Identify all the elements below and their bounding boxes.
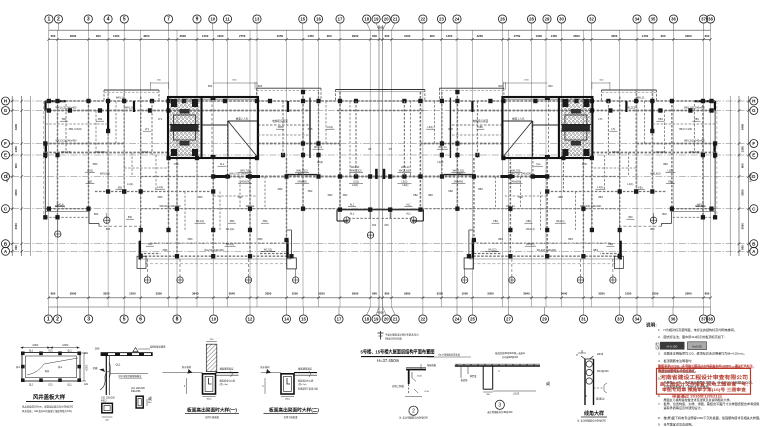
svg-text:240x400: 240x400 [95, 150, 106, 154]
svg-text:H为相对标高装饰面，未标注的结构标高均同电梯间。: H为相对标高装饰面，未标注的结构标高均同电梯间。 [664, 327, 737, 332]
svg-text:17: 17 [337, 317, 342, 322]
svg-text:WKL7(5): WKL7(5) [510, 170, 520, 173]
svg-text:XB4: XB4 [230, 220, 235, 223]
svg-text:<2300: <2300 [62, 344, 69, 347]
svg-text:屋面上人孔: 屋面上人孔 [512, 117, 525, 121]
svg-text:H±0.05: H±0.05 [692, 344, 702, 348]
svg-text:11: 11 [225, 17, 230, 22]
svg-text:LT1: LT1 [145, 128, 150, 131]
svg-text:2900: 2900 [70, 292, 77, 296]
svg-text:3: 3 [498, 403, 501, 409]
svg-text:G21: G21 [48, 351, 53, 353]
svg-text:1550: 1550 [292, 292, 299, 296]
svg-text:AL1: AL1 [350, 212, 355, 216]
svg-text:9: 9 [196, 17, 199, 23]
svg-text:37: 37 [701, 317, 706, 322]
svg-text:3100: 3100 [404, 34, 411, 38]
svg-text:240x450: 240x450 [454, 181, 464, 184]
svg-text:800: 800 [705, 292, 710, 296]
svg-text:XB1: XB1 [88, 181, 93, 184]
svg-text:WKL11: WKL11 [116, 96, 125, 100]
svg-text:未尽事宜详见总说明。: 未尽事宜详见总说明。 [664, 421, 695, 426]
svg-text:1300: 1300 [536, 34, 543, 38]
svg-text:WL1(1): WL1(1) [226, 227, 235, 231]
svg-text:XB3: XB3 [198, 195, 203, 199]
svg-text:4Φ12/Φ6: 4Φ12/Φ6 [131, 390, 141, 393]
svg-text:20: 20 [384, 17, 389, 22]
svg-text:L1(1): L1(1) [597, 186, 603, 189]
svg-text:34: 34 [635, 317, 640, 322]
svg-text:吊模: 吊模 [93, 366, 98, 370]
svg-text:XB2: XB2 [663, 162, 668, 166]
svg-text:2900: 2900 [70, 34, 77, 38]
svg-text:XB5: XB5 [278, 126, 283, 129]
svg-text:15: 15 [300, 17, 305, 22]
svg-text:800: 800 [662, 212, 667, 216]
svg-text:150: 150 [384, 223, 389, 227]
svg-text:1450: 1450 [446, 34, 453, 38]
svg-text:XB1: XB1 [118, 187, 123, 190]
svg-text:WKL9a: WKL9a [246, 204, 255, 208]
svg-text:10: 10 [210, 17, 215, 22]
svg-text:WKL5: WKL5 [141, 150, 149, 154]
svg-text:WKL9(3) 240x400: WKL9(3) 240x400 [160, 204, 181, 208]
svg-text:WKL8: WKL8 [697, 204, 704, 207]
svg-text:35: 35 [651, 17, 656, 22]
svg-text:QL1: QL1 [67, 351, 72, 353]
svg-text:WKL3(1) 240x450: WKL3(1) 240x450 [56, 139, 77, 143]
svg-text:Φ8@200分布筋: Φ8@200分布筋 [385, 336, 402, 340]
svg-text:WKL1(3) 240x400: WKL1(3) 240x400 [56, 106, 77, 110]
svg-text:XB4: XB4 [258, 237, 263, 241]
svg-text:4: 4 [107, 17, 110, 23]
svg-text:LT1: LT1 [158, 117, 163, 121]
svg-text:WL3(1): WL3(1) [526, 243, 534, 246]
svg-text:QL1: QL1 [29, 351, 34, 353]
svg-text:2900: 2900 [352, 292, 359, 296]
svg-text:WL2(2): WL2(2) [488, 249, 496, 252]
svg-text:豫图审字(3216)，各项施工图设计文件审查专用g69551: 豫图审字(3216)，各项施工图设计文件审查专用g69551，通过红色标注， [658, 363, 756, 368]
svg-text:600: 600 [498, 84, 503, 88]
svg-text:LT1: LT1 [611, 128, 616, 131]
svg-text:XB4: XB4 [163, 248, 168, 252]
svg-text:WKL9(3) 240x400: WKL9(3) 240x400 [580, 204, 601, 208]
svg-text:WL1(1): WL1(1) [526, 227, 535, 231]
svg-text:WKL4(3): WKL4(3) [689, 150, 699, 154]
svg-text:H=37.450m: H=37.450m [377, 358, 400, 363]
svg-text:L5(2): L5(2) [353, 181, 359, 184]
svg-text:13: 13 [255, 17, 260, 22]
svg-text:QL1: QL1 [67, 384, 72, 386]
svg-text:XB4: XB4 [263, 220, 268, 223]
svg-text:XB4: XB4 [498, 237, 503, 241]
svg-text:1450: 1450 [307, 34, 314, 38]
svg-text:12: 12 [248, 317, 253, 322]
svg-text:5号楼、15号楼大屋面层结构平面布置图: 5号楼、15号楼大屋面层结构平面布置图 [361, 349, 435, 356]
svg-text:F: F [4, 141, 7, 146]
svg-text:LT1: LT1 [598, 117, 603, 121]
svg-text:1700: 1700 [582, 164, 588, 166]
svg-text:3640: 3640 [523, 292, 530, 296]
svg-text:5: 5 [123, 317, 126, 323]
svg-text:E: E [752, 153, 755, 158]
svg-text:2900: 2900 [685, 34, 692, 38]
svg-text:风井盖板，G21及QL1的混凝土强度等级为C30。: 风井盖板，G21及QL1的混凝土强度等级为C30。 [22, 409, 74, 413]
svg-text:1450: 1450 [642, 34, 649, 38]
svg-text:150: 150 [372, 223, 377, 227]
svg-text:平面中钢筋未注明分布筋者均为: 平面中钢筋未注明分布筋者均为 [385, 332, 419, 336]
svg-text:XB1: XB1 [668, 181, 673, 184]
svg-text:800: 800 [94, 212, 99, 216]
svg-text:18: 18 [364, 17, 369, 22]
svg-text:QL1: QL1 [116, 363, 121, 367]
svg-text:<2300: <2300 [32, 344, 39, 347]
svg-text:4250: 4250 [143, 34, 150, 38]
svg-text:XB4: XB4 [188, 237, 193, 241]
svg-text:20: 20 [384, 317, 389, 322]
svg-text:1350: 1350 [14, 146, 18, 153]
svg-text:3350: 3350 [598, 292, 605, 296]
svg-text:1700: 1700 [524, 80, 530, 82]
svg-text:WKL10: WKL10 [351, 165, 360, 169]
svg-text:L5(2): L5(2) [401, 181, 407, 184]
svg-text:XB1: XB1 [98, 118, 103, 121]
svg-text:600: 600 [51, 34, 56, 38]
svg-text:AL1: AL1 [350, 204, 355, 207]
svg-text:900: 900 [661, 34, 666, 38]
svg-text:2750: 2750 [514, 34, 521, 38]
svg-text:WKL11: WKL11 [636, 96, 645, 100]
svg-text:3050: 3050 [741, 189, 745, 196]
svg-text:1450: 1450 [113, 34, 120, 38]
svg-text:WKL12(2): WKL12(2) [453, 170, 464, 173]
svg-text:XB4: XB4 [568, 237, 573, 241]
svg-text:WKL3(1) 240x450: WKL3(1) 240x450 [684, 139, 705, 143]
svg-text:XB4: XB4 [608, 243, 613, 246]
svg-text:XL1: XL1 [536, 163, 541, 166]
svg-text:QL1: QL1 [29, 384, 34, 386]
svg-text:审图专用章 豫施审字第(16)号 三图审查: 审图专用章 豫施审字第(16)号 三图审查 [662, 387, 746, 392]
svg-text:8: 8 [176, 317, 179, 323]
svg-text:7.: 7. [658, 402, 661, 406]
svg-text:3350: 3350 [156, 292, 163, 296]
svg-text:8.: 8. [658, 416, 661, 420]
svg-text:板顶钢筋未注明者均:: 板顶钢筋未注明者均: [664, 358, 693, 363]
svg-text:风井盖板大样: 风井盖板大样 [33, 393, 66, 401]
svg-text:2600: 2600 [180, 34, 187, 38]
svg-text:17: 17 [338, 17, 343, 22]
svg-text:E: E [4, 153, 7, 158]
svg-text:<2300: <2300 [86, 364, 89, 371]
svg-text:800: 800 [628, 216, 633, 219]
svg-text:XB1 h=100: XB1 h=100 [69, 127, 82, 131]
svg-text:4Φ12: 4Φ12 [101, 400, 107, 403]
svg-text:XB5: XB5 [308, 127, 313, 131]
svg-text:3640: 3640 [192, 292, 199, 296]
svg-text:WL2(2): WL2(2) [264, 249, 272, 252]
svg-text:WKL13(2): WKL13(2) [350, 170, 361, 173]
svg-text:2Φ16: 2Φ16 [597, 353, 604, 356]
svg-text:3250: 3250 [318, 292, 325, 296]
svg-text:3350: 3350 [487, 292, 494, 296]
svg-text:XB1: XB1 [62, 118, 67, 121]
svg-text:30: 30 [559, 17, 564, 22]
svg-text:23: 23 [439, 17, 444, 22]
svg-text:≤1100: ≤1100 [513, 392, 520, 395]
svg-text:19: 19 [374, 317, 379, 322]
svg-text:600: 600 [705, 34, 710, 38]
svg-text:3640: 3640 [229, 292, 236, 296]
svg-text:L6(1): L6(1) [427, 126, 433, 129]
svg-text:26: 26 [500, 17, 505, 22]
svg-text:XB3: XB3 [158, 195, 163, 199]
svg-text:1450: 1450 [551, 34, 558, 38]
svg-text:审查通过 2016年12月21日: 审查通过 2016年12月21日 [672, 393, 722, 398]
svg-text:1.: 1. [658, 328, 661, 332]
svg-text:22: 22 [421, 317, 426, 322]
svg-text:WKL9a: WKL9a [506, 204, 515, 208]
svg-text:XB3: XB3 [558, 195, 563, 199]
svg-text:XB4: XB4 [493, 220, 498, 223]
svg-text:300a: 300a [207, 398, 213, 400]
svg-text:WKL10: WKL10 [401, 165, 410, 169]
svg-text:2750: 2750 [239, 34, 246, 38]
svg-text:WL1(1): WL1(1) [556, 220, 564, 223]
svg-text:600: 600 [385, 34, 390, 38]
svg-text:+150: +150 [424, 391, 430, 393]
svg-text:16: 16 [316, 17, 321, 22]
svg-text:XB1: XB1 [694, 118, 699, 121]
svg-text:21: 21 [393, 17, 398, 22]
svg-text:XB2: XB2 [448, 190, 453, 193]
svg-text:21: 21 [393, 317, 398, 322]
svg-text:WL2(2) 240x400: WL2(2) 240x400 [537, 248, 557, 252]
svg-text:38: 38 [708, 317, 713, 322]
svg-text:3000: 3000 [741, 223, 745, 230]
svg-text:34: 34 [635, 17, 640, 22]
svg-text:1550: 1550 [625, 292, 632, 296]
svg-text:XB2: XB2 [428, 193, 433, 197]
svg-text:2600: 2600 [573, 34, 580, 38]
svg-text:1700: 1700 [232, 80, 238, 82]
svg-text:WKL6(2): WKL6(2) [650, 172, 660, 176]
svg-text:H: H [576, 354, 578, 357]
svg-text:24: 24 [455, 317, 460, 322]
svg-text:600: 600 [548, 84, 553, 88]
svg-text:34.350: 34.350 [748, 173, 752, 182]
svg-text:5: 5 [123, 17, 126, 23]
svg-text:27: 27 [506, 317, 511, 322]
svg-text:XB2: XB2 [343, 194, 348, 197]
svg-text:19: 19 [374, 17, 379, 22]
svg-text:2Φ8: 2Φ8 [95, 348, 100, 351]
svg-text:本图未注明板厚均120，梁顶标高未注明者均为Bh=120mm: 本图未注明板厚均120，梁顶标高未注明者均为Bh=120mm。 [664, 351, 747, 356]
svg-text:36: 36 [671, 17, 676, 22]
svg-text:18: 18 [364, 317, 369, 322]
svg-text:3250: 3250 [437, 292, 444, 296]
svg-text:4.: 4. [658, 359, 661, 363]
svg-text:900: 900 [96, 34, 101, 38]
svg-text:34.350: 34.350 [5, 173, 9, 182]
svg-text:6: 6 [139, 317, 142, 323]
svg-text:1: 1 [47, 317, 50, 323]
svg-text:遇有矛盾等应及时通知设计。: 遇有矛盾等应及时通知设计。 [664, 405, 704, 410]
svg-text:1300: 1300 [217, 34, 224, 38]
svg-text:25: 25 [470, 317, 475, 322]
svg-text:600: 600 [372, 34, 377, 38]
svg-text:WKL14: WKL14 [438, 146, 447, 149]
svg-text:3000: 3000 [14, 223, 18, 230]
svg-text:或: 或 [148, 395, 152, 401]
svg-text:WKL14: WKL14 [314, 146, 323, 149]
svg-text:WKL2(3): WKL2(3) [125, 106, 135, 110]
svg-text:3400: 3400 [741, 123, 745, 130]
svg-text:XB5: XB5 [448, 127, 453, 131]
svg-text:3350: 3350 [265, 292, 272, 296]
svg-text:XB5: XB5 [478, 126, 483, 129]
svg-text:3640: 3640 [561, 292, 568, 296]
svg-text:风井: 风井 [45, 369, 50, 373]
svg-text:800: 800 [385, 292, 390, 296]
svg-text:300a: 300a [285, 398, 291, 400]
svg-text:WKL5: WKL5 [612, 150, 620, 154]
svg-text:600: 600 [208, 84, 213, 88]
svg-text:WKL12(2): WKL12(2) [296, 170, 307, 173]
svg-text:河南省建设工程设计审查有限公司: 河南省建设工程设计审查有限公司 [659, 374, 748, 381]
svg-text:XB1: XB1 [638, 187, 643, 190]
svg-text:29: 29 [545, 17, 550, 22]
svg-text:22: 22 [421, 17, 426, 22]
svg-text:XB4: XB4 [148, 243, 153, 246]
svg-text:XB2: XB2 [478, 187, 483, 191]
svg-text:2900: 2900 [404, 292, 411, 296]
svg-text:800: 800 [106, 227, 111, 231]
svg-text:240x500: 240x500 [240, 181, 250, 184]
svg-text:板面高出梁面时大样(一): 板面高出梁面时大样(一) [187, 407, 237, 414]
svg-text:10: 10 [211, 317, 216, 322]
svg-text:XB3: XB3 [598, 195, 603, 199]
svg-text:4250: 4250 [277, 34, 284, 38]
svg-text:Φ12@200: Φ12@200 [597, 370, 609, 373]
svg-text:XB2: XB2 [328, 193, 333, 197]
svg-text:施工图设计文件审查 民地工图审查一号;: 施工图设计文件审查 民地工图审查一号; [660, 380, 748, 387]
svg-text:L1(1): L1(1) [157, 186, 163, 189]
svg-text:37: 37 [701, 17, 706, 22]
svg-text:图式标注法，图中所111标示的板顶标高如下:: 图式标注法，图中所111标示的板顶标高如下: [664, 334, 725, 339]
svg-text:1700: 1700 [173, 164, 179, 166]
svg-text:240x500: 240x500 [511, 181, 521, 184]
svg-text:4950: 4950 [377, 311, 384, 315]
svg-text:14: 14 [284, 317, 289, 322]
svg-text:3: 3 [87, 17, 90, 23]
svg-text:L2(2): L2(2) [667, 170, 673, 173]
svg-text:XB2: XB2 [308, 190, 313, 193]
svg-text:QL1: QL1 [58, 367, 63, 369]
svg-text:2.: 2. [658, 335, 661, 339]
svg-text:DT: DT [368, 148, 372, 151]
svg-text:4250: 4250 [477, 34, 484, 38]
svg-text:WL3(1): WL3(1) [226, 243, 234, 246]
svg-text:L2(2): L2(2) [317, 160, 323, 164]
svg-text:F: F [752, 141, 755, 146]
svg-text:G21 200x200: G21 200x200 [101, 398, 116, 400]
svg-text:7: 7 [167, 17, 170, 23]
svg-text:3.: 3. [658, 352, 661, 356]
svg-text:G: G [752, 108, 756, 113]
svg-text:2: 2 [56, 317, 59, 323]
svg-text:33: 33 [617, 317, 622, 322]
svg-text:XB1: XB1 [658, 118, 663, 121]
svg-text:36: 36 [671, 317, 676, 322]
svg-text:1550: 1550 [462, 292, 469, 296]
svg-text:电梯机房屋面: 电梯机房屋面 [473, 119, 489, 123]
svg-text:1450: 1450 [202, 34, 209, 38]
svg-text:楼(屋)面下机电专业预留≥300下沉处板面，加强筋构造详见相: 楼(屋)面下机电专业预留≥300下沉处板面，加强筋构造详见相关大样图。 [664, 415, 760, 420]
svg-text:AL1: AL1 [406, 204, 411, 207]
svg-text:板面高出梁面时大样(二): 板面高出梁面时大样(二) [269, 407, 319, 414]
svg-text:WKL1(3) 240x400: WKL1(3) 240x400 [684, 106, 705, 110]
svg-text:WKL2(3): WKL2(3) [625, 106, 635, 110]
svg-text:31: 31 [581, 317, 586, 322]
svg-text:L2(2): L2(2) [437, 160, 443, 164]
svg-text:WKL13(2): WKL13(2) [399, 170, 410, 173]
svg-text:AL1: AL1 [406, 212, 411, 216]
svg-text:2: 2 [412, 409, 415, 415]
svg-text:3400: 3400 [14, 123, 18, 130]
svg-text:G: G [4, 108, 8, 113]
svg-text:4950: 4950 [377, 25, 384, 29]
svg-text:H-0.100: H-0.100 [667, 344, 678, 348]
svg-text:4250: 4250 [611, 34, 618, 38]
svg-text:G21: G21 [84, 353, 89, 355]
svg-text:600: 600 [258, 84, 263, 88]
svg-text:XB4: XB4 [593, 248, 598, 252]
svg-text:1: 1 [48, 17, 51, 23]
svg-text:WKL8: WKL8 [57, 204, 64, 207]
svg-text:900: 900 [14, 163, 18, 168]
svg-text:QL1: QL1 [16, 367, 21, 369]
svg-text:屋面上人孔: 屋面上人孔 [236, 117, 249, 121]
svg-text:3050: 3050 [14, 189, 18, 196]
svg-text:线角大样: 线角大样 [584, 410, 604, 417]
svg-text:2900: 2900 [352, 34, 359, 38]
svg-text:29: 29 [542, 317, 547, 322]
svg-text:G21: G21 [84, 384, 89, 386]
svg-text:800: 800 [14, 245, 18, 250]
svg-text:3250: 3250 [103, 292, 110, 296]
svg-text:800: 800 [128, 216, 133, 219]
svg-text:800: 800 [741, 245, 745, 250]
svg-text:L2(2): L2(2) [87, 170, 93, 173]
svg-text:15: 15 [301, 317, 306, 322]
svg-text:900: 900 [327, 34, 332, 38]
svg-text:2: 2 [57, 17, 60, 23]
svg-text:WKL7(5): WKL7(5) [240, 170, 250, 173]
svg-text:XB2: XB2 [278, 187, 283, 191]
svg-text:24: 24 [455, 17, 460, 22]
svg-text:电梯机房屋面: 电梯机房屋面 [272, 119, 288, 123]
svg-text:XB2: XB2 [413, 194, 418, 197]
svg-text:1350: 1350 [741, 146, 745, 153]
svg-text:QL1 200x300: QL1 200x300 [131, 388, 146, 390]
svg-text:L1(1): L1(1) [627, 182, 633, 186]
svg-text:G21: G21 [48, 384, 53, 386]
svg-text:XB2: XB2 [93, 162, 98, 166]
svg-text:9.: 9. [658, 422, 661, 426]
svg-text:XB4: XB4 [526, 220, 531, 223]
svg-text:900: 900 [430, 34, 435, 38]
svg-text:800: 800 [51, 292, 56, 296]
